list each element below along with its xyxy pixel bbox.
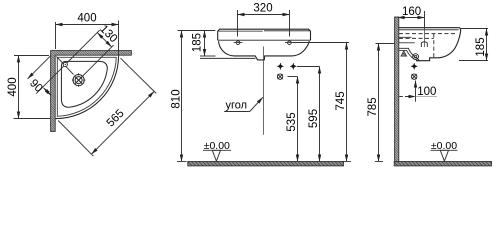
dimension 100: dimension line (dashed with arrow) (399, 96, 415, 98)
wall (side view) (395, 17, 399, 162)
dimension 565: extension line from right tip (121, 58, 157, 93)
dimension 90: leader line from wall corner (28, 56, 51, 79)
drain symbol (72, 73, 85, 86)
svg-text:400: 400 (77, 13, 96, 25)
dimension 100: extension line (415, 81, 417, 102)
dimension 90: dimension line with arrows (44, 88, 52, 96)
rim second edge (399, 29, 459, 31)
svg-text:160: 160 (402, 6, 421, 18)
svg-text:595: 595 (308, 109, 320, 128)
dimension 160: dimension line (398, 17, 425, 19)
svg-text:130: 130 (97, 23, 119, 45)
dimension 810: dimension line (181, 31, 183, 162)
dimension 785: extension line (376, 43, 395, 45)
dimension 400 top: extension lines (55, 22, 57, 49)
basin bowl outline (61, 61, 107, 107)
dimension 810: extension line top (178, 30, 216, 32)
svg-text:400: 400 (7, 77, 19, 96)
hidden line basin interior (dashed) (399, 33, 456, 35)
mounting hole left (front) (236, 41, 240, 45)
siphon symbol (side) (412, 74, 417, 79)
dimension 745: dimension line (346, 43, 348, 162)
siphon point symbol (277, 74, 282, 79)
dimension 185 (front): dimension line (204, 31, 206, 57)
svg-text:785: 785 (367, 97, 379, 116)
dimension 535: dimension line (297, 77, 299, 162)
hidden line basin bottom (dashed) (399, 37, 434, 39)
drain circles (side) (413, 54, 419, 60)
svg-text:185: 185 (475, 37, 487, 56)
dimension 400 left: extension lines (14, 55, 49, 57)
svg-text:угол: угол (226, 100, 248, 112)
rim bottom edge (218, 39, 311, 41)
svg-text:320: 320 (253, 2, 272, 14)
dimension 90: extension from tap hole (down-left) (36, 66, 64, 94)
corner diagonal line (56, 56, 73, 74)
dimension 400 top: dimension line (56, 24, 119, 26)
svg-text:185: 185 (192, 33, 204, 52)
dimension 745: floor tick (342, 161, 351, 163)
dimension 810: floor tick (177, 161, 187, 163)
wall corner band (plan, L-shape) (51, 51, 132, 132)
dimension 400 left: dimension line (18, 55, 20, 118)
svg-text:745: 745 (335, 91, 347, 110)
dimension 595: dimension line (319, 67, 321, 162)
floor slab (front view) (188, 162, 344, 166)
svg-text:810: 810 (171, 89, 183, 108)
dimension 130: dimension line with arrows (97, 33, 111, 47)
fixing diamond (side) (411, 63, 417, 70)
dimension 785: dimension line (378, 44, 380, 162)
dimension 565: extension line from bottom tip (58, 121, 93, 157)
fixing point diamond left (277, 63, 283, 70)
under-edge line (200, 57, 255, 59)
dimension 565: dimension line (91, 91, 154, 154)
dimension 160: extension line (424, 11, 426, 29)
bracket / overflow detail (399, 48, 420, 60)
dimension 400 left: extension stub at sink tip (56, 118, 59, 120)
dimension 130: extension line from tap hole (67, 30, 100, 63)
tap hole cross-section (421, 42, 427, 47)
tap axis line (424, 29, 426, 48)
floor slab (side view) (394, 162, 491, 166)
rim ledge line right (264, 30, 310, 32)
dimension 320: extension lines (237, 10, 239, 37)
basin outer rim arc (56, 56, 119, 119)
basin inner rim line (57, 57, 116, 116)
fixing point diamond right (290, 63, 296, 70)
tap hole (small circle) (63, 62, 67, 66)
dimension 320: dimension line (238, 14, 290, 16)
svg-text:565: 565 (105, 107, 127, 129)
dimension 745: extension line (293, 42, 349, 44)
basin profile (side) (399, 28, 461, 61)
hidden vertical (dashed) (433, 34, 435, 58)
svg-text:90: 90 (27, 77, 45, 95)
center line (263, 47, 265, 135)
dimension 595: leader from diamonds (297, 66, 320, 68)
dimension 185 (side): dimension line (486, 29, 488, 61)
ledge solid lines near wall (399, 36, 412, 38)
svg-text:535: 535 (286, 112, 298, 131)
dimension 185 (side): extension lines (461, 28, 488, 30)
rim ledge line left (219, 30, 263, 32)
dimension 535: leader from siphon (288, 76, 298, 78)
dimension 185 (front): extension lines (200, 55, 216, 57)
basin body outline (front) (219, 41, 310, 60)
mounting hole right (front) (288, 41, 292, 45)
basin rim (front) (218, 29, 311, 40)
dimension 785: floor tick (375, 161, 383, 163)
svg-text:100: 100 (417, 86, 436, 98)
dimension 130: extension line from drain (83, 45, 114, 76)
